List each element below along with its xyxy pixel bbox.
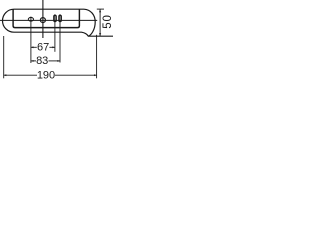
center mounting hole: [40, 18, 45, 23]
dimension 83 line right segment with arrow: [49, 60, 61, 62]
horizontal centerline: [0, 19, 97, 21]
extension line through slot 2: [59, 14, 61, 62]
knockout ellipse hole: [28, 17, 33, 21]
fixture right end arc: [84, 9, 95, 36]
svg-text:83: 83: [36, 55, 48, 67]
svg-text:67: 67: [37, 41, 49, 53]
dimension 50 top tick: [97, 8, 104, 10]
dimension 83 line left segment with arrow: [31, 60, 36, 62]
svg-text:190: 190: [37, 70, 55, 82]
dimension 67 line left segment with arrow: [31, 46, 37, 48]
vertical centerline through hole: [42, 0, 44, 38]
slot 2: [59, 15, 62, 22]
dimension 50 vertical line with arrows: [99, 9, 101, 36]
extension line from body right edge: [96, 35, 98, 79]
dimension 190 line left segment with arrow: [4, 74, 37, 76]
dimension 190 line right segment with arrow: [55, 74, 97, 76]
dimension 67 line right segment with arrow: [49, 46, 55, 48]
extension line through slot 1: [54, 14, 56, 52]
extension line from ellipse (left reference): [30, 17, 32, 63]
fixture outer stadium body: [3, 9, 114, 36]
slot 1: [54, 15, 57, 22]
inner mounting plate: [13, 9, 79, 27]
extension line from body left edge: [3, 36, 5, 78]
svg-text:50: 50: [102, 14, 113, 29]
background: [0, 0, 113, 85]
